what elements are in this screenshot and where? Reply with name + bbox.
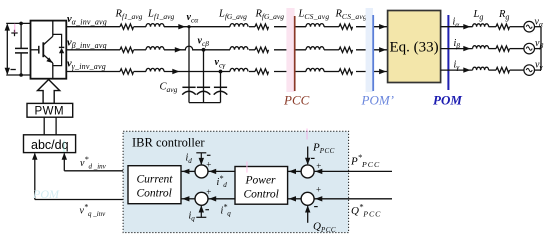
inductor Lf1 alpha	[146, 24, 164, 27]
arrow grid alpha	[463, 24, 470, 29]
label Power Control	[244, 175, 279, 201]
inductor LCS beta	[306, 47, 324, 50]
resistor Rf1 beta	[120, 47, 134, 52]
minus sign iq	[205, 209, 209, 211]
resistor Rf1 gamma	[120, 69, 134, 74]
minus sign dc	[11, 69, 16, 71]
summer circle 3 (P)	[301, 165, 314, 178]
POM' line	[372, 15, 374, 91]
arrow beta mid	[175, 47, 182, 52]
source v_gamma	[524, 65, 535, 76]
wire dc bottom rail	[6, 74, 30, 76]
resistor RfG beta	[255, 47, 269, 52]
Eq block	[388, 11, 441, 83]
node vc gamma	[219, 70, 223, 74]
minus sign P	[311, 157, 315, 159]
inductor Lg beta	[473, 46, 489, 49]
source v_beta	[524, 43, 535, 54]
wire vd horizontal	[64, 170, 128, 172]
wire summer3 to Power Control	[288, 169, 302, 174]
resistor RCS beta	[339, 47, 353, 52]
wire summer4 to Power Control	[288, 196, 302, 201]
summer circle 1 (id)	[195, 165, 208, 178]
inductor Lf1 beta	[146, 47, 164, 50]
PWM hollow arrow	[38, 80, 60, 104]
arrow gamma into Eq	[379, 69, 386, 74]
wire vc alpha drop	[188, 27, 190, 91]
resistor RCS alpha	[339, 24, 353, 29]
wire P* into summer3	[314, 169, 392, 174]
wire Power Control to summer2	[208, 196, 235, 201]
node dc bottom	[19, 73, 23, 77]
arrow grid gamma	[463, 67, 470, 72]
resistor Rg alpha	[496, 24, 510, 29]
transistor IGBT	[31, 21, 53, 79]
wire neutral bus	[540, 27, 542, 70]
arrow gamma mid	[172, 69, 179, 74]
node vc alpha	[187, 25, 190, 28]
PCC line	[294, 16, 296, 91]
Q measured input arrow	[305, 205, 310, 223]
inductor LCS gamma	[306, 68, 324, 71]
PCC highlight band	[286, 8, 294, 92]
wire Q* into summer4	[314, 196, 392, 201]
summer circle 2 (iq)	[195, 192, 208, 205]
svg-text:+: +	[316, 184, 321, 194]
svg-text:+: +	[206, 187, 211, 197]
svg-text:PCC: PCC	[283, 93, 310, 108]
svg-text:PWM: PWM	[35, 106, 65, 118]
svg-text:+: +	[316, 161, 321, 171]
wire summer1 to Current Control	[181, 169, 195, 174]
P measured input arrow	[305, 147, 310, 165]
minus sign Q	[314, 206, 318, 208]
resistor Rf1 alpha	[120, 24, 134, 29]
source v_alpha	[524, 21, 535, 32]
artifact pink power control	[246, 162, 248, 173]
abc/dq box	[24, 135, 76, 153]
inductor Lg gamma	[473, 67, 489, 70]
inductor LfG beta	[230, 47, 248, 50]
svg-text:POM: POM	[32, 187, 60, 201]
inductor LfG gamma	[230, 68, 248, 71]
wire dc top rail	[6, 22, 30, 24]
wire vq horizontal	[35, 199, 128, 201]
svg-text:abc/dq: abc/dq	[31, 138, 69, 152]
wire phase alpha	[66, 26, 387, 28]
artifact pink top center	[306, 129, 308, 140]
wire grid beta	[441, 48, 541, 50]
Vdc arrow	[5, 23, 10, 75]
resistor Rg beta	[496, 46, 510, 51]
svg-text:+: +	[206, 160, 211, 170]
wire summer2 to Current Control	[181, 196, 195, 201]
plus sign dc	[11, 30, 17, 36]
wire phase beta	[66, 46, 387, 50]
inductor Lg alpha	[473, 24, 489, 27]
wire PWM to abc/dq right	[55, 117, 57, 135]
capacitor Cavg beta	[197, 87, 211, 102]
arrow alpha into Eq	[379, 24, 386, 29]
wire PWM to abc/dq left	[43, 117, 45, 135]
capacitor Cdc	[15, 23, 28, 75]
POM' highlight band	[366, 8, 373, 92]
wire vc gamma drop	[220, 72, 222, 92]
diode antiparallel	[53, 34, 65, 65]
Power Control box	[235, 167, 288, 205]
arrow grid beta	[463, 46, 470, 51]
svg-text:Eq. (33): Eq. (33)	[390, 40, 439, 56]
id measured input arrow	[196, 153, 206, 165]
inductor Lf1 gamma	[146, 68, 164, 71]
Current Control box	[128, 166, 181, 204]
wire grid gamma	[441, 69, 541, 71]
svg-text:POM’: POM’	[361, 93, 395, 108]
wire phase gamma	[66, 71, 387, 73]
inductor LfG alpha	[230, 24, 248, 27]
resistor RCS gamma	[339, 69, 353, 74]
wire grid alpha	[441, 26, 541, 28]
artifact cyan streak abcdq	[63, 141, 64, 153]
wire vd vertical into abc/dq	[62, 153, 67, 171]
svg-text:Power: Power	[245, 175, 277, 187]
resistor Rg gamma	[496, 67, 510, 72]
capacitor Cavg gamma	[214, 87, 228, 102]
svg-text:Current: Current	[137, 173, 174, 185]
wire capacitor bottom bus	[189, 102, 221, 104]
node vc beta	[202, 48, 206, 52]
summer circle 4 (Q)	[301, 192, 314, 205]
inverter box	[31, 21, 67, 79]
POM line	[447, 15, 449, 90]
arrow beta into Eq	[379, 47, 386, 52]
resistor RfG gamma	[255, 69, 269, 74]
resistor RfG alpha	[255, 24, 269, 29]
minus sign id	[207, 154, 211, 156]
capacitor Cavg alpha	[182, 87, 196, 102]
wire vq vertical into abc/dq	[32, 153, 37, 200]
iq measured input arrow	[196, 205, 206, 217]
artifact pink streak plus	[14, 24, 15, 34]
node dc top	[19, 22, 23, 26]
svg-text:POM: POM	[433, 93, 462, 108]
IBR controller dashed box	[123, 131, 349, 232]
wire vc beta drop	[203, 50, 205, 91]
svg-text:IBR controller: IBR controller	[132, 136, 205, 150]
svg-text:Control: Control	[244, 189, 279, 201]
svg-text:Control: Control	[137, 187, 172, 199]
PWM box	[27, 103, 73, 117]
arrow alpha mid	[178, 24, 185, 29]
inductor LCS alpha	[306, 24, 324, 27]
label Current Control	[137, 173, 174, 199]
wire Power Control to summer1	[208, 169, 235, 174]
